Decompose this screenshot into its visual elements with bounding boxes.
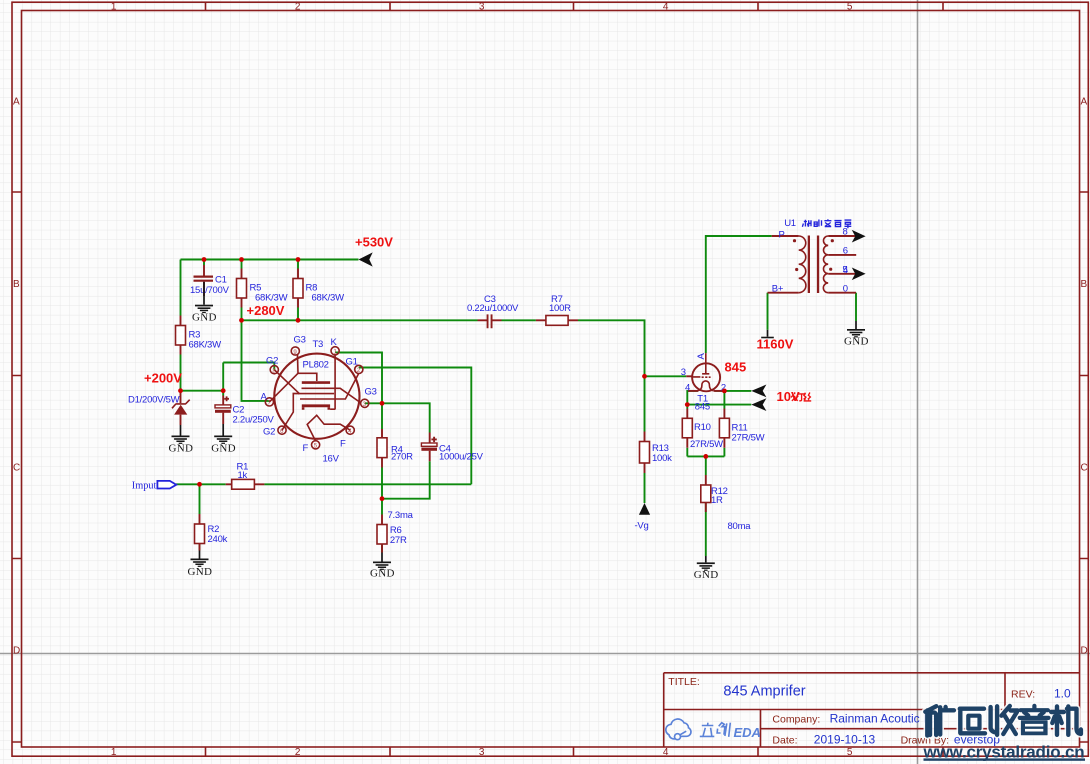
svg-text:3: 3 [681, 367, 686, 378]
resistor R3 [176, 316, 222, 355]
svg-text:K: K [331, 337, 338, 348]
wire R6 node down [381, 499, 383, 515]
anode lead [702, 353, 709, 374]
wire cathode node down to R4 [381, 403, 383, 429]
ruler numbers top [111, 2, 853, 13]
EasyEDA logo text [700, 723, 731, 737]
wire input to R1 [176, 483, 226, 485]
filament arch [698, 381, 714, 391]
wire G2 feed to pin8 [223, 363, 274, 370]
frame ruler ticks bottom [206, 747, 944, 756]
wire R1 to G1 riser [264, 483, 471, 485]
pin 6 circle [278, 426, 286, 434]
svg-text:TITLE:: TITLE: [668, 676, 700, 688]
svg-text:15u/700V: 15u/700V [190, 285, 230, 296]
svg-text:5: 5 [847, 2, 853, 13]
svg-text:D: D [1081, 646, 1088, 657]
pin 2 circle [355, 365, 363, 373]
net flag -Vg [635, 503, 651, 532]
resistor R11 [719, 409, 764, 448]
resistor R13 [640, 432, 673, 474]
svg-text:-Vg: -Vg [635, 521, 649, 532]
junction +200V/R3 [178, 388, 183, 393]
phase dots [793, 239, 796, 242]
junction +530V/R8 [296, 257, 301, 262]
wire +530V rail [181, 259, 359, 261]
grid G1 dash line [300, 373, 359, 399]
envelope circle [274, 354, 359, 439]
svg-text:Imput: Imput [132, 480, 157, 491]
svg-text:GND: GND [169, 442, 194, 454]
anode path from pin9/pin7 corner [298, 355, 317, 381]
pin6 path to G2 line [282, 393, 299, 430]
svg-text:T3: T3 [313, 339, 324, 350]
port 1160V [757, 330, 794, 352]
pin8 diagonal to G2 line [274, 370, 299, 394]
wire anode feed from +280V rail to pin7 [242, 320, 270, 401]
svg-text:845 Amprifer: 845 Amprifer [723, 684, 805, 700]
svg-text:1R: 1R [711, 495, 723, 506]
major grid line vertical [917, 0, 919, 764]
svg-text:845: 845 [695, 402, 710, 413]
wire T1 pin4 to filament node [687, 391, 697, 405]
resistor R2 [195, 514, 228, 551]
svg-text:100R: 100R [549, 303, 571, 314]
svg-text:1000u/25V: 1000u/25V [439, 452, 484, 463]
svg-text:B+: B+ [772, 284, 784, 295]
resistor R12 [701, 475, 728, 512]
svg-text:EDA: EDA [734, 725, 761, 740]
svg-text:845: 845 [725, 360, 747, 375]
svg-text:100k: 100k [652, 453, 672, 464]
svg-text:G3: G3 [294, 335, 306, 346]
svg-text:G2: G2 [266, 356, 278, 367]
grid line and dashes [692, 376, 711, 378]
grid G3 dash line [302, 388, 361, 403]
resistor R6 [377, 515, 407, 553]
grid G2 dash line [298, 393, 334, 395]
secondary leads [828, 236, 856, 293]
junction +280V/R8 [296, 318, 301, 323]
svg-text:6: 6 [843, 246, 848, 257]
zener diode D1 [128, 392, 190, 425]
wire R2 bottom to GND [199, 544, 201, 551]
svg-text:D1/200V/5W: D1/200V/5W [128, 395, 180, 406]
junction +530V/C1 [202, 257, 207, 262]
EasyEDA logo cloud [666, 719, 691, 740]
svg-text:27R: 27R [390, 535, 407, 546]
pin 5 circle [312, 441, 320, 449]
svg-text:68K/3W: 68K/3W [255, 292, 288, 303]
svg-text:D: D [13, 646, 20, 657]
pin 4 circle [346, 426, 354, 434]
input port Imput [132, 480, 177, 491]
wire G1 from pin2 right and down [359, 368, 472, 485]
pin 9 circle [291, 347, 299, 355]
svg-text:U1: U1 [784, 218, 796, 229]
svg-text:+280V: +280V [247, 303, 285, 318]
svg-text:2019-10-13: 2019-10-13 [814, 733, 876, 747]
junction input/R2 [197, 482, 202, 487]
junction R6 node [380, 496, 385, 501]
svg-text:A: A [261, 391, 268, 402]
junction filament right [722, 389, 727, 394]
wire C3 to R7 [502, 319, 536, 321]
svg-text:16V: 16V [323, 454, 340, 465]
wire C4 bottom to R6 node [382, 461, 430, 498]
primary lead bottom B+ [768, 292, 799, 294]
ground under C1 [192, 282, 217, 324]
svg-text:GND: GND [844, 335, 869, 347]
capacitor C1 [190, 265, 230, 296]
core lines [808, 236, 820, 294]
wire K up and over to pin1 [335, 353, 382, 404]
pin7 diagonal to anode corner [269, 373, 298, 402]
watermark halo [925, 706, 1081, 736]
primary winding [799, 236, 806, 293]
svg-text:PL802: PL802 [303, 360, 329, 371]
junction dots [178, 257, 727, 501]
svg-text:C: C [13, 463, 20, 474]
svg-text:0.22u/1000V: 0.22u/1000V [467, 303, 519, 314]
svg-text:GND: GND [370, 568, 395, 580]
ground under R2 [188, 551, 213, 578]
wire pin2 node down to R11 [723, 391, 725, 409]
svg-text:80ma: 80ma [728, 521, 752, 532]
resistor R1 [226, 462, 265, 489]
ruler letters right [1081, 97, 1088, 657]
tube T3 PL802 [261, 335, 377, 465]
wire +280V rail [242, 319, 478, 321]
junction +280V/R5 [239, 318, 244, 323]
resistor R5 [237, 269, 288, 308]
wire C2 stub down [222, 391, 224, 396]
svg-text:2.2u/250V: 2.2u/250V [233, 415, 275, 426]
svg-text:4: 4 [663, 2, 669, 13]
wire T1 anode up to transformer P [706, 236, 772, 353]
net flag arrow sec 5 [852, 268, 866, 281]
wire R3 bottom to +200V node [180, 355, 182, 391]
junction +530V/R5 [239, 257, 244, 262]
svg-text:1k: 1k [238, 470, 248, 481]
capacitor C3 [467, 294, 519, 328]
svg-text:C: C [1081, 463, 1088, 474]
svg-text:0: 0 [843, 283, 848, 294]
label CJK output transformer [802, 219, 851, 228]
junction grid node T1 [642, 374, 647, 379]
pin4 lead [688, 390, 698, 392]
svg-text:GND: GND [192, 312, 217, 324]
pin 3 circle [361, 399, 369, 407]
pin 7 circle [265, 398, 273, 406]
svg-text:GND: GND [188, 566, 213, 578]
svg-text:+530V: +530V [355, 235, 393, 250]
svg-text:8: 8 [843, 227, 848, 238]
wire cathode node right to C4 [382, 403, 430, 432]
svg-text:G1: G1 [346, 357, 358, 368]
svg-text:Date:: Date: [772, 735, 797, 747]
svg-text:C1: C1 [215, 275, 227, 286]
wire down to R12 [705, 456, 707, 475]
capacitor C4 polarized [421, 433, 483, 463]
svg-text:P: P [779, 230, 785, 241]
svg-text:2: 2 [295, 747, 301, 758]
svg-text:R10: R10 [694, 422, 711, 433]
wire +200V node horizontal [181, 390, 224, 392]
net flag 10V filament lower arrow [751, 398, 766, 411]
wire R5 top stub [241, 260, 243, 269]
envelope circle [692, 363, 720, 391]
svg-text:1160V: 1160V [757, 337, 794, 352]
ground under R12 [694, 556, 719, 581]
svg-text:1: 1 [111, 747, 117, 758]
svg-text:27R/5W: 27R/5W [690, 439, 723, 450]
svg-text:4: 4 [663, 747, 669, 758]
resistor R7 [536, 294, 578, 325]
svg-text:B: B [13, 279, 20, 290]
wire R8 bottom stub [297, 308, 299, 321]
ground under D1 [169, 425, 194, 454]
secondary winding [823, 236, 828, 293]
wire cathode bottom rail [687, 455, 724, 457]
ruler numbers bottom [111, 747, 853, 758]
svg-text:G2: G2 [263, 426, 275, 437]
net label 10V lamp filament [777, 389, 812, 404]
junction filament left [685, 402, 690, 407]
svg-text:2: 2 [295, 2, 301, 13]
ground under C2 [211, 424, 236, 454]
wire R10 bottom [686, 448, 688, 457]
svg-text:A: A [1081, 97, 1088, 108]
tube T1 845 [681, 353, 746, 413]
char shi [960, 709, 985, 734]
svg-text:4: 4 [685, 383, 690, 394]
net flag +530V [355, 235, 393, 267]
wire filament lower line [687, 404, 751, 406]
resistor R8 [293, 269, 344, 308]
net flag arrow sec 8 [852, 230, 866, 243]
svg-text:5: 5 [847, 747, 853, 758]
ground under R6 [370, 553, 395, 580]
char kuang [925, 706, 936, 735]
wire R7 to corner and down [578, 320, 645, 431]
svg-text:1.0: 1.0 [1054, 687, 1071, 701]
wire C2 riser up [222, 363, 224, 391]
wire R11 bottom [723, 448, 725, 457]
wire T1 pin2 to arrow [715, 390, 752, 392]
primary lead top P [772, 235, 799, 237]
cathode line from pin1 [334, 355, 336, 410]
svg-text:68K/3W: 68K/3W [189, 339, 222, 350]
cathode bottom bar with feet [302, 404, 330, 407]
transformer U1 [768, 218, 857, 294]
svg-text:4: 4 [843, 265, 848, 276]
capacitor C2 polarized [215, 396, 274, 426]
svg-text:F: F [303, 443, 309, 454]
svg-text:7.3ma: 7.3ma [388, 510, 414, 521]
svg-text:A: A [696, 353, 707, 360]
svg-text:3: 3 [479, 2, 485, 13]
svg-text:68K/3W: 68K/3W [312, 292, 345, 303]
pin3 lead [686, 375, 692, 377]
major grid line horizontal [0, 653, 1090, 655]
wire R8 top stub [297, 260, 299, 269]
svg-text:REV:: REV: [1011, 689, 1035, 701]
wire filament node to R10 [686, 405, 688, 409]
svg-text:GND: GND [211, 442, 236, 454]
wire left drop to R3 [180, 260, 182, 316]
char shou [991, 706, 998, 735]
wire R6 bottom to GND [381, 544, 383, 553]
pin 1 circle [331, 347, 339, 355]
junction +200V/C2 [221, 388, 226, 393]
wire B+ drop [767, 293, 769, 330]
wire C1 top stub [203, 260, 205, 266]
resistor R10 [682, 409, 723, 451]
junction cathode node [380, 401, 385, 406]
frame ruler ticks left [12, 192, 22, 742]
svg-text:270R: 270R [391, 452, 413, 463]
wire R12 bottom to GND [705, 503, 707, 557]
char yin [1020, 706, 1049, 718]
resistor R4 [377, 429, 413, 468]
ground under transformer 0 [844, 321, 869, 347]
wire T3 pin3 to cathode node [365, 402, 382, 404]
svg-text:GND: GND [694, 569, 719, 581]
svg-text:G3: G3 [365, 386, 377, 397]
svg-text:1: 1 [111, 2, 117, 13]
wire secondary 0 drop [855, 293, 857, 321]
pin 8 circle [270, 366, 278, 374]
svg-text:240k: 240k [208, 534, 228, 545]
ruler letters left [13, 97, 20, 657]
frame ruler ticks right [1080, 192, 1089, 742]
net flag 10V filament upper arrow [751, 385, 766, 398]
svg-text:+200V: +200V [144, 371, 182, 386]
wire R2 drop [199, 484, 201, 514]
anode plate bar [302, 381, 330, 384]
svg-text:A: A [13, 97, 20, 108]
wire R4 bottom [381, 468, 383, 499]
pin2 lead [714, 390, 725, 392]
watermark underline [924, 758, 1086, 760]
svg-text:10V: 10V [777, 389, 800, 404]
frame ruler ticks top [206, 2, 944, 10]
watermark big characters [925, 706, 1081, 736]
svg-text:3: 3 [479, 747, 485, 758]
char ji [1051, 706, 1081, 734]
junction R10/R11 bottom [703, 454, 708, 459]
svg-text:Company:: Company: [772, 713, 820, 725]
svg-text:B: B [1081, 279, 1088, 290]
svg-text:F: F [340, 438, 346, 449]
wire R5 bottom stub [241, 308, 243, 321]
svg-text:27R/5W: 27R/5W [732, 433, 765, 444]
wire grid node to T1 pin3 [645, 375, 687, 377]
filament V [307, 415, 350, 441]
wire R13 bottom to -Vg [644, 473, 646, 503]
